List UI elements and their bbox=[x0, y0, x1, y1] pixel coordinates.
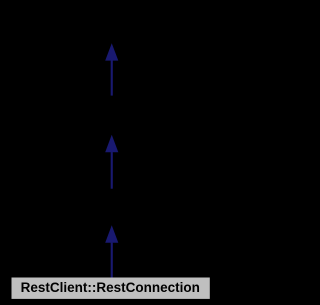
svg-text:RestClient::RestConnection: RestClient::RestConnection bbox=[21, 280, 200, 295]
